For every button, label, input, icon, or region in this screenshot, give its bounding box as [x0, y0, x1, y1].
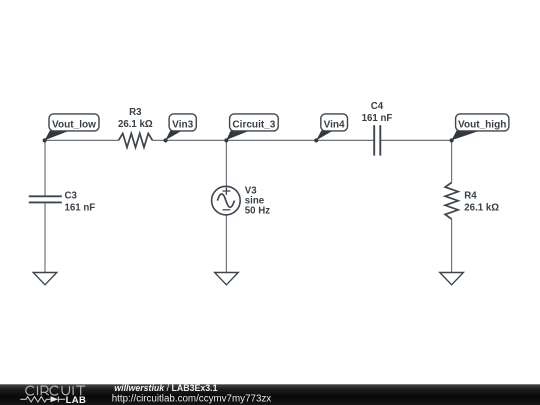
svg-text:Vout_low: Vout_low [52, 119, 96, 130]
svg-text:Vout_high: Vout_high [458, 119, 506, 130]
svg-text:http://circuitlab.com/ccymv7my: http://circuitlab.com/ccymv7my773zx [112, 394, 272, 405]
svg-text:161 nF: 161 nF [362, 113, 393, 124]
svg-text:willwerstiuk / LAB3Ex3.1: willwerstiuk / LAB3Ex3.1 [114, 383, 217, 393]
svg-text:26.1 kΩ: 26.1 kΩ [464, 202, 499, 213]
svg-text:LAB: LAB [66, 395, 87, 405]
svg-text:C4: C4 [371, 101, 384, 112]
svg-text:C3: C3 [65, 191, 78, 202]
svg-text:50 Hz: 50 Hz [245, 206, 270, 217]
svg-text:Circuit_3: Circuit_3 [232, 119, 275, 130]
svg-text:161 nF: 161 nF [65, 202, 96, 213]
svg-text:Vin4: Vin4 [324, 119, 345, 130]
svg-text:R3: R3 [129, 107, 142, 118]
svg-text:R4: R4 [464, 191, 477, 202]
svg-text:26.1 kΩ: 26.1 kΩ [118, 119, 153, 130]
svg-text:Vin3: Vin3 [172, 119, 193, 130]
